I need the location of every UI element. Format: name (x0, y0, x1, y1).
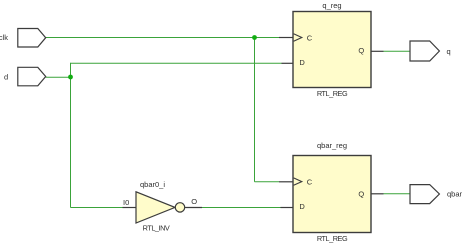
pin Q of qbar_reg (358, 190, 383, 199)
svg-text:RTL_REG: RTL_REG (317, 89, 348, 98)
svg-text:D: D (299, 202, 305, 211)
svg-text:d: d (4, 73, 8, 82)
svg-text:qbar: qbar (447, 190, 463, 199)
pin C of q_reg (clock wedge) (279, 33, 313, 42)
pin D of qbar_reg (281, 202, 306, 211)
wire d net from port (46, 76, 71, 78)
svg-text:C: C (307, 33, 313, 42)
port qbar (410, 185, 463, 204)
svg-text:Q: Q (358, 46, 364, 55)
svg-text:I0: I0 (123, 198, 129, 207)
port clk (0, 29, 46, 48)
pin Q of q_reg (358, 46, 383, 55)
register q_reg (293, 1, 371, 98)
svg-text:q: q (447, 47, 451, 56)
wire inverter O to qbar_reg D (202, 207, 281, 209)
inverter qbar0_i (123, 180, 203, 232)
svg-text:qbar0_i: qbar0_i (140, 180, 165, 189)
wire clk net to qbar_reg C (255, 181, 280, 183)
wire clk net vertical branch (254, 38, 256, 182)
wire q_reg Q to q port (384, 50, 411, 52)
wire d net to inverter I0 (71, 207, 123, 209)
wire clk net horizontal (46, 37, 280, 39)
pin D of q_reg (282, 58, 306, 67)
pin C of qbar_reg (clock wedge) (279, 177, 313, 186)
wire d net vertical (70, 63, 72, 208)
svg-text:RTL_INV: RTL_INV (143, 223, 170, 232)
svg-text:clk: clk (0, 33, 8, 42)
node clk junction (252, 35, 257, 40)
port d (4, 67, 46, 86)
wire qbar_reg Q to qbar port (384, 193, 411, 195)
node d junction (68, 75, 73, 80)
port q (410, 41, 451, 61)
svg-text:RTL_REG: RTL_REG (317, 234, 348, 243)
svg-text:qbar_reg: qbar_reg (317, 141, 347, 150)
svg-text:C: C (307, 177, 313, 186)
svg-text:D: D (299, 58, 305, 67)
svg-text:O: O (191, 197, 197, 206)
wire d net to q_reg D (71, 62, 282, 64)
register qbar_reg (293, 141, 371, 243)
svg-text:Q: Q (358, 190, 364, 199)
svg-text:q_reg: q_reg (322, 1, 341, 10)
